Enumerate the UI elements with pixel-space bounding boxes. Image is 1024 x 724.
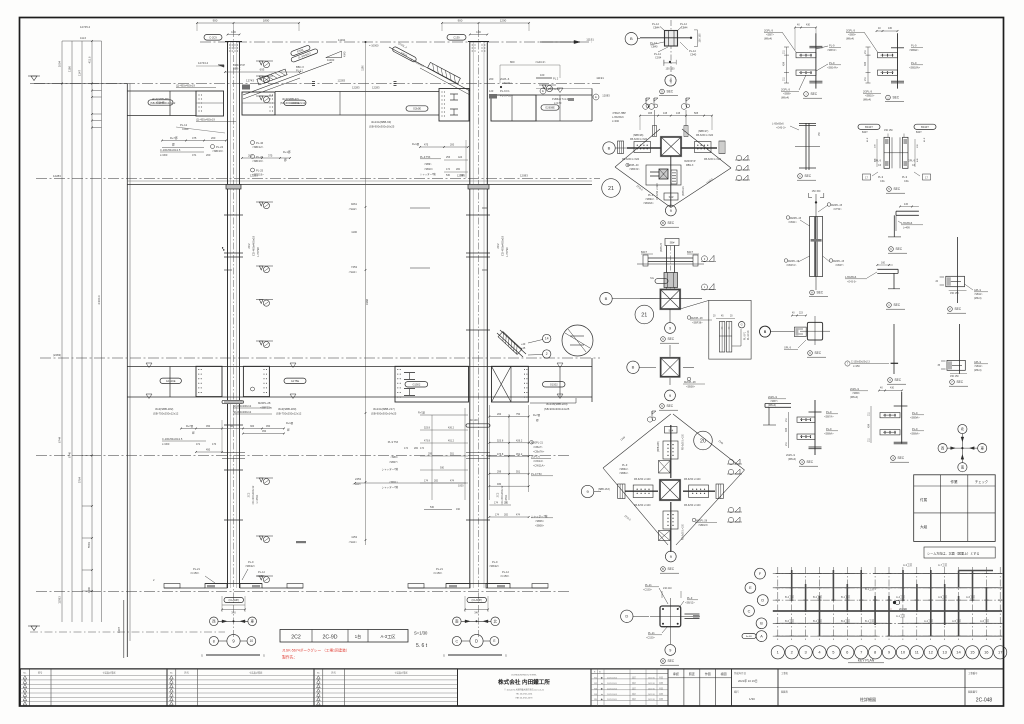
detail 20 number circle (694, 431, 713, 450)
detail 21 lower assembly (646, 165, 681, 185)
detail 21 weld symbols right (736, 155, 741, 160)
svg-text:+4F: +4F (521, 343, 526, 346)
column 2C2 first (227, 42, 229, 588)
grid line base 591 (36, 591, 570, 593)
beam stubs at grid 455 (222, 452, 245, 454)
detail 20 left flange (633, 485, 653, 498)
C2 base plates (446, 583, 510, 585)
svg-text:SEC: SEC (667, 404, 674, 408)
svg-text:L=499: L=499 (903, 227, 910, 230)
svg-text:900: 900 (213, 19, 218, 23)
pill label G2608E (541, 105, 559, 110)
key plan beam segments (780, 573, 804, 575)
svg-text:<SB6A>: <SB6A> (910, 432, 920, 436)
svg-text:(SBB-163): (SBB-163) (598, 488, 610, 491)
svg-text:9: 9 (669, 394, 671, 398)
svg-text:M20PL-15: M20PL-15 (831, 204, 843, 207)
svg-text:174: 174 (420, 447, 425, 450)
weld symbol marks right of D5 (702, 256, 708, 262)
svg-text:C3A: C3A (880, 180, 885, 183)
pill CLAMP under C2 (467, 597, 487, 602)
detail D14 sec label (888, 378, 893, 383)
svg-text:シャッター7階: シャッター7階 (420, 172, 436, 176)
detail D7 I-section (805, 123, 807, 170)
svg-text:R+1郡: R+1郡 (283, 150, 291, 154)
svg-text:11593: 11593 (58, 596, 62, 604)
span dimension 900 1800 above C1 (197, 22, 299, 24)
beam box left of C1 (196, 91, 224, 116)
svg-text:BBC-X: BBC-X (296, 65, 304, 69)
benchmark level symbol bottom (31, 626, 37, 631)
north compass (958, 424, 967, 433)
detail D8 plates (884, 137, 890, 168)
mid span dimension line x365 (365, 42, 367, 545)
svg-text:<CW14>: <CW14> (533, 459, 544, 463)
grid line level 455.5 (36, 455, 570, 457)
beam lines right of C2 (536, 94, 592, 96)
svg-text:縮尺: 縮尺 (734, 690, 739, 694)
svg-text:大組: 大組 (920, 524, 928, 529)
svg-text:M20PL-28: M20PL-28 (696, 520, 708, 523)
diagonal brace into C2 mid joint (497, 333, 523, 357)
detail D17b sec label (891, 456, 896, 461)
splice plate under C1 mid (222, 400, 244, 403)
drawing number cells (964, 669, 966, 706)
svg-text:200: 200 (206, 153, 211, 157)
detail D5 callout box (709, 300, 751, 359)
svg-text:2GPL-6: 2GPL-6 (531, 455, 540, 459)
svg-text:PL-25: PL-25 (256, 169, 264, 173)
svg-text:R+7郡: R+7郡 (170, 136, 178, 140)
svg-text:PL-9: PL-9 (911, 44, 917, 48)
column C1 top dimension 100 (228, 34, 240, 36)
svg-text:東: 東 (981, 445, 985, 450)
svg-text:◆: ◆ (601, 677, 603, 680)
svg-text:2C2: 2C2 (247, 492, 251, 497)
detail D3 sec label (886, 95, 891, 100)
svg-text:チェック: チェック (975, 479, 988, 484)
svg-text:1-65x65x6: 1-65x65x6 (845, 276, 857, 279)
svg-text:(SB-600x200x12x12: (SB-600x200x12x12 (280, 101, 306, 105)
svg-text:PL-9 F14: PL-9 F14 (748, 330, 750, 340)
svg-text:SEC: SEC (955, 307, 962, 311)
svg-text:= 10000: = 10000 (369, 43, 379, 47)
svg-text:(M6x4): (M6x4) (974, 297, 982, 300)
svg-text:12083: 12083 (520, 174, 528, 178)
svg-text:9: 9 (669, 648, 671, 652)
svg-text:<C150>: <C150> (256, 574, 266, 578)
svg-text:GPL-9: GPL-9 (908, 160, 916, 163)
svg-text:12283: 12283 (372, 86, 380, 90)
svg-text:551: 551 (450, 453, 455, 456)
beam divider left bay 4F (169, 91, 171, 116)
svg-text:(M6x4): (M6x4) (846, 37, 854, 41)
svg-text:11191: 11191 (338, 38, 346, 42)
detail 21 sec label (661, 221, 666, 226)
svg-text:21: 21 (641, 312, 647, 318)
svg-text:M20PL-40: M20PL-40 (627, 164, 639, 167)
svg-text:<SBF38>: <SBF38> (692, 322, 703, 325)
svg-text:<C150>: <C150> (190, 571, 200, 575)
diagonal brace at C1 top (243, 62, 332, 95)
svg-text:D: D (625, 614, 628, 619)
svg-text:<SB7>: <SB7> (770, 399, 778, 403)
svg-text:PL-9: PL-9 (687, 597, 693, 600)
svg-text:5. 6 t: 5. 6 t (416, 643, 428, 649)
svg-text:J1SK-5674ダークグレー （工場1回塗装）: J1SK-5674ダークグレー （工場1回塗装） (282, 648, 349, 653)
svg-text:SEC: SEC (894, 187, 901, 191)
svg-text:B: B (608, 145, 611, 150)
detail 21 vertical side plates (653, 126, 657, 137)
svg-text:L-65x65x6: L-65x65x6 (612, 116, 624, 119)
svg-text:PL-9 T53: PL-9 T53 (388, 441, 399, 444)
svg-text:FB-6x50 L=100: FB-6x50 L=100 (684, 478, 701, 481)
svg-text:PL-9 F16: PL-9 F16 (500, 94, 512, 98)
detail D13 box with plates (807, 322, 822, 340)
svg-text:FB-4x50 L=320: FB-4x50 L=320 (656, 183, 659, 200)
svg-text:SEC: SEC (893, 96, 900, 100)
svg-text:シャッター7階: シャッター7階 (531, 514, 548, 518)
svg-text:6746: 6746 (68, 451, 72, 458)
key plan axis letter circles (755, 568, 766, 579)
svg-text:473.8: 473.8 (497, 453, 504, 456)
svg-text:2GPL-9: 2GPL-9 (781, 88, 790, 92)
2F beam lines (127, 366, 592, 368)
svg-text:PL-24: PL-24 (216, 145, 224, 149)
svg-text:474: 474 (450, 480, 455, 483)
svg-text:C139: C139 (453, 35, 460, 39)
svg-text:C940: C940 (690, 53, 697, 57)
svg-text:PL-9: PL-9 (912, 427, 918, 431)
svg-text:430: 430 (806, 24, 811, 27)
svg-text:450: 450 (262, 430, 267, 433)
grid line level 358 (40, 357, 600, 359)
column C2 splice plate 3F (468, 185, 489, 190)
svg-text:+45: +45 (521, 347, 526, 350)
bolt symbol PL-46 (251, 141, 255, 145)
svg-text:(SB-900x300x14x25: (SB-900x300x14x25 (371, 412, 397, 416)
svg-text:B: B (662, 567, 664, 571)
svg-text:PL-9 T53: PL-9 T53 (420, 156, 431, 159)
svg-text:B-2工区: B-2工区 (841, 619, 851, 623)
type table 2C2 (280, 630, 408, 643)
svg-text:<CW11A>: <CW11A> (533, 464, 545, 468)
svg-text:(M6x4): (M6x4) (850, 395, 858, 399)
svg-text:S=1/30: S=1/30 (414, 631, 428, 636)
svg-text:⌂: ⌂ (890, 607, 892, 611)
svg-text:D: D (761, 599, 764, 603)
detail 20 top bolt plate (663, 441, 678, 459)
svg-text:<SBF23>: <SBF23> (260, 406, 272, 410)
dim 340 under C1 (222, 609, 245, 611)
svg-text:471: 471 (192, 153, 197, 157)
svg-text:L=5790: L=5790 (505, 247, 509, 257)
svg-text:(M6x4): (M6x4) (788, 457, 796, 461)
detail D17a gusset section third (814, 400, 816, 455)
pill label C139 (447, 35, 466, 41)
detail D5 sec label (661, 337, 666, 342)
svg-text:KEY PLAN: KEY PLAN (858, 659, 875, 663)
svg-text:B-1工区: B-1工区 (865, 587, 875, 591)
project name cell (777, 669, 779, 706)
svg-text:523.8: 523.8 (497, 439, 504, 442)
svg-text:D: D (475, 639, 478, 644)
detail D9 column section tall (810, 217, 823, 277)
svg-text:<SB18A>: <SB18A> (909, 66, 921, 70)
column C1 top bolt dots (229, 45, 230, 46)
svg-text:(SB-900x300x16x25: (SB-900x300x16x25 (369, 125, 395, 129)
detail D11 sec label (887, 303, 892, 308)
svg-text:C034: C034 (655, 56, 662, 60)
scale bar under C1 (206, 654, 260, 656)
bolt symbol PL-26 (251, 155, 255, 159)
column C2 top dimension 100 (470, 34, 488, 36)
svg-text:R+7郡: R+7郡 (186, 424, 194, 428)
svg-text:<SB6A>: <SB6A> (619, 468, 629, 471)
svg-text:<SBF12>: <SBF12> (252, 145, 264, 149)
svg-text:CD-300x300x12: CD-300x300x12 (251, 485, 255, 504)
svg-text:C3A: C3A (904, 180, 909, 183)
svg-text:9: 9 (670, 209, 672, 213)
svg-text:B-1工区: B-1工区 (865, 619, 875, 623)
detail D8 double tee (858, 124, 880, 129)
svg-text:174: 174 (404, 447, 409, 450)
svg-text:XM4XP=P: XM4XP=P (233, 63, 245, 67)
svg-text:2C-048: 2C-048 (976, 698, 993, 704)
svg-text:16: 16 (984, 650, 989, 655)
svg-text:PL-21: PL-21 (648, 632, 655, 635)
svg-text:415: 415 (904, 203, 909, 206)
grid line level 42 (200, 41, 592, 43)
svg-text:<C150>: <C150> (500, 574, 510, 578)
svg-text:CB40: CB40 (651, 45, 658, 49)
svg-text:473.8: 473.8 (424, 440, 431, 443)
svg-text:210 210: 210 210 (663, 587, 672, 590)
svg-text:<SH1>: <SH1> (349, 270, 358, 274)
detail D1 axis circle B (625, 33, 637, 45)
svg-text:<SB11>: <SB11> (974, 365, 983, 368)
detail D5 number circle 21 (635, 305, 654, 324)
svg-text:424: 424 (458, 156, 463, 159)
detail D12 gusset bar (956, 237, 958, 303)
detail D15 gusset bar 2 (959, 324, 961, 374)
svg-text:530: 530 (430, 506, 435, 509)
detail D5 axis circle 9 (665, 323, 676, 334)
svg-text:SEC: SEC (815, 351, 822, 355)
bolt symbol PL-28 mid (251, 387, 255, 391)
svg-text:B44T: B44T (862, 131, 868, 134)
svg-text:FB-6x50 L=100: FB-6x50 L=100 (683, 434, 685, 450)
svg-text:北: 北 (961, 426, 965, 431)
svg-text:(SBB-R3: (SBB-R3 (682, 186, 685, 196)
svg-text:D: D (662, 659, 664, 663)
svg-text:PL-12: PL-12 (652, 22, 659, 26)
detail D2 sec label (804, 92, 809, 97)
detail D19 right flange (685, 613, 700, 615)
svg-text:<G43-3>: <G43-3> (535, 60, 546, 64)
detail D5 tee column (666, 246, 668, 291)
svg-text:<SB9>: <SB9> (848, 33, 856, 37)
beam box right of C1 (242, 92, 275, 115)
svg-text:(SB-750x250x12x12: (SB-750x250x12x12 (153, 412, 179, 416)
level marks column (256, 60, 273, 62)
svg-text:G1516E: G1516E (166, 379, 176, 383)
svg-text:150 150: 150 150 (950, 375, 959, 378)
pill label G1516E mid left (160, 378, 181, 383)
svg-text:<SCT1>: <SCT1> (502, 81, 512, 85)
svg-text:9: 9 (669, 79, 671, 83)
svg-text:1186: 1186 (68, 66, 72, 72)
svg-text:A-9工区: A-9工区 (938, 595, 948, 599)
svg-text:SEC: SEC (895, 378, 902, 382)
detail circle at C2 mid (562, 325, 593, 356)
svg-text:C-100x50x20x2.3: C-100x50x20x2.3 (851, 361, 870, 364)
svg-text:<SB9>: <SB9> (852, 391, 860, 395)
svg-text:GPL-9: GPL-9 (874, 160, 882, 163)
2F beam box right of C1 (243, 366, 269, 396)
svg-text:1台: 1台 (355, 633, 362, 640)
detail 21 axis circle 9 bottom (665, 205, 676, 216)
svg-text:A: A (760, 635, 763, 639)
svg-text:20: 20 (700, 438, 706, 444)
svg-text:L=170: L=170 (554, 101, 562, 105)
svg-text:PL-9: PL-9 (911, 61, 917, 65)
pill label G1T5E mid right (284, 378, 306, 383)
svg-text:930: 930 (440, 467, 445, 470)
detail 20 center X square (659, 479, 681, 501)
svg-text:<SB/12>: <SB/12> (685, 602, 695, 605)
svg-text:L=5798: L=5798 (256, 247, 260, 257)
svg-text:SEC: SEC (811, 92, 818, 96)
C1 mid dim chains (181, 428, 284, 430)
3F beam line (127, 184, 592, 186)
svg-text:C-100x50x20x1.5: C-100x50x20x1.5 (162, 437, 183, 441)
svg-text:図面番号: 図面番号 (968, 690, 978, 694)
svg-text:UCHIDA KENSOU STEEL: UCHIDA KENSOU STEEL (511, 674, 537, 677)
pill CLAMP under C1 (224, 597, 244, 602)
svg-text:2C2: 2C2 (247, 243, 251, 249)
svg-text:2021/10: 2021/10 (648, 688, 655, 690)
svg-text:SEC: SEC (896, 247, 903, 251)
beam box left of C2 deep (439, 89, 469, 122)
detail D1 sec label (660, 89, 665, 94)
svg-text:(SB-600x200x12x12: (SB-600x200x12x12 (150, 101, 176, 105)
svg-text:(SB-750x250x12x12: (SB-750x250x12x12 (276, 412, 302, 416)
detail D5 bolt label (687, 316, 691, 320)
svg-text:12743.4: 12743.4 (198, 61, 209, 65)
svg-text:2021/10: 2021/10 (648, 678, 655, 680)
svg-text:PxB6x6 Tx1.2: PxB6x6 Tx1.2 (552, 97, 569, 101)
svg-text:471: 471 (196, 443, 201, 446)
svg-text:SB#: SB# (669, 429, 674, 432)
svg-text:SEC: SEC (668, 567, 675, 571)
svg-text:2C2: 2C2 (291, 635, 301, 641)
svg-text:PL-9: PL-9 (648, 194, 654, 197)
detail D9 sec label (810, 290, 815, 295)
svg-text:北: 北 (494, 619, 498, 624)
column 2C2 second (469, 42, 471, 588)
svg-text:CB44: CB44 (681, 26, 688, 30)
svg-text:A-1工区: A-1工区 (896, 614, 906, 618)
svg-text:M20PL-15: M20PL-15 (788, 260, 800, 263)
svg-text:5764: 5764 (78, 476, 82, 483)
detail 20 sec label (661, 567, 666, 572)
svg-text:<SB08>: <SB08> (535, 525, 545, 528)
svg-text:M20PL-15: M20PL-15 (833, 260, 845, 263)
svg-text:B-2工区: B-2工区 (813, 595, 823, 599)
slope triangle 11000 (326, 51, 342, 58)
svg-text:<SED19>: <SED19> (252, 173, 264, 177)
svg-text:530: 530 (446, 174, 451, 177)
svg-text:G: G (741, 323, 743, 327)
svg-text:299: 299 (497, 470, 502, 473)
detail 20 axis circle 9 left (581, 485, 593, 497)
diagonal brace at C2 top (389, 47, 470, 91)
svg-text:190: 190 (456, 508, 461, 511)
svg-text:2GPL-9: 2GPL-9 (764, 29, 773, 33)
detail D5 side pill (655, 279, 668, 284)
svg-text:B344T: B344T (865, 125, 873, 129)
svg-text:FB-6x50 L=320: FB-6x50 L=320 (704, 158, 722, 161)
svg-text:2021/12/05: 2021/12/05 (607, 688, 618, 690)
svg-text:L=490: L=490 (612, 120, 620, 123)
svg-text:282: 282 (504, 514, 509, 517)
parts list tables (21, 669, 168, 706)
svg-text:SEC: SEC (898, 456, 905, 460)
detail D3 dims (867, 47, 869, 83)
detail D5 top label box (665, 239, 679, 246)
svg-text:150 150: 150 150 (699, 33, 702, 43)
splice block right of C2 top (489, 94, 497, 99)
detail D10 sec label (889, 247, 894, 252)
svg-text:M20PL-28: M20PL-28 (258, 401, 271, 405)
svg-text:<CBa7>: <CBa7> (533, 445, 543, 449)
svg-text:BB9-X: BB9-X (233, 67, 241, 71)
svg-text:照査: 照査 (689, 671, 695, 676)
svg-text:800: 800 (510, 60, 515, 64)
svg-text:シーム方向は、北面（図面上）とする: シーム方向は、北面（図面上）とする (927, 551, 979, 556)
svg-text:174: 174 (424, 480, 429, 483)
seam direction note box (924, 547, 995, 558)
svg-text:475: 475 (424, 144, 429, 147)
level mark far right top joint (539, 84, 556, 86)
svg-text:(2283): (2283) (53, 353, 61, 357)
detail D5 axis circle B right (759, 326, 770, 337)
C1 dim chain right (242, 157, 290, 159)
svg-text:PL-12: PL-12 (680, 22, 687, 26)
svg-text:S: S (443, 654, 445, 658)
C1 dim chain below top joint (162, 140, 226, 142)
svg-text:9: 9 (764, 330, 766, 334)
svg-text:174: 174 (446, 168, 451, 171)
svg-text:<CBa7A>: <CBa7A> (533, 450, 545, 454)
elevation right edge top (591, 89, 593, 122)
svg-text:L-65x65x6: L-65x65x6 (772, 123, 784, 126)
svg-text:RB9-X: RB9-X (686, 164, 694, 167)
detail D5 axis circle B (600, 293, 612, 305)
svg-text:L=300: L=300 (162, 442, 170, 446)
svg-text:◆: ◆ (601, 687, 603, 690)
svg-text:<SH1>: <SH1> (349, 540, 358, 544)
svg-text:シャッター7階: シャッター7階 (382, 467, 399, 471)
date and scale cell (731, 669, 733, 706)
svg-text:作業: 作業 (950, 479, 958, 484)
svg-text:2453: 2453 (355, 477, 361, 481)
C1 base plates (205, 583, 262, 585)
svg-text:承認: 承認 (673, 671, 679, 676)
svg-text:(SBB-226): (SBB-226) (658, 441, 660, 452)
svg-text:<HBLP-HBP: <HBLP-HBP (612, 112, 626, 115)
